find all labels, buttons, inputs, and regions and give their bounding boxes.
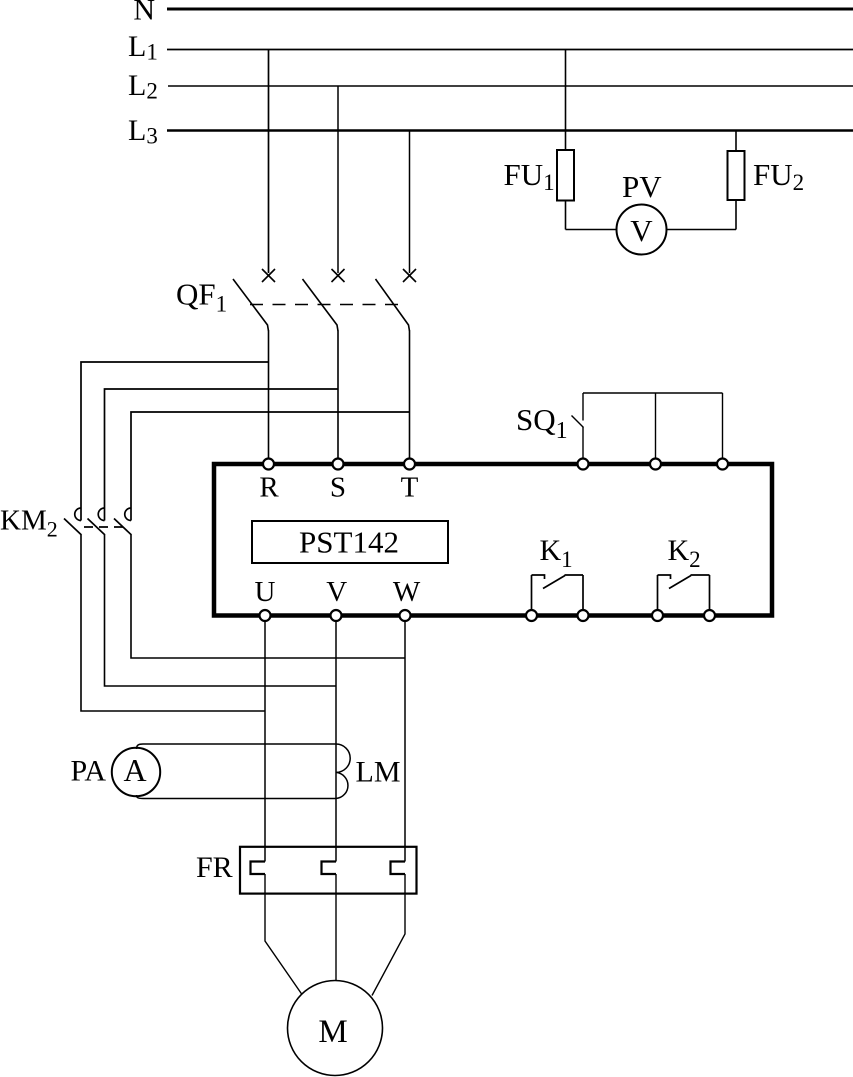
SQ1 right leg	[722, 393, 724, 459]
wire U phase down	[264, 621, 266, 862]
FR heater V	[322, 862, 337, 875]
terminal K1-a	[526, 610, 537, 621]
wire W to motor	[372, 874, 405, 996]
bus N	[167, 8, 853, 11]
svg-text:S: S	[330, 472, 346, 504]
svg-text:R: R	[259, 472, 279, 504]
terminal K2-b	[704, 610, 715, 621]
svg-text:PST142: PST142	[299, 525, 399, 560]
FR heater U	[251, 862, 266, 875]
svg-text:FR: FR	[196, 851, 233, 884]
bus L2	[168, 85, 853, 87]
wire ammeter bottom	[137, 795, 337, 799]
QF1 pole 2 fixed contact x	[332, 269, 345, 282]
wire FU1 to voltmeter	[566, 229, 617, 231]
terminal SQ1-c	[717, 459, 728, 470]
wire V to motor	[335, 874, 337, 981]
svg-text:V: V	[326, 576, 347, 608]
KM2 linkage dashed	[84, 526, 123, 528]
bus L3	[167, 129, 853, 132]
terminal V	[331, 610, 342, 621]
svg-text:M: M	[318, 1014, 347, 1050]
limit switch SQ1 top bar	[583, 392, 723, 394]
PST142 inner rect	[252, 521, 448, 563]
svg-text:U: U	[255, 576, 276, 608]
wire L3 drop to QF1 pole 3	[409, 131, 411, 274]
QF1 pole 1 fixed contact x	[262, 269, 275, 282]
svg-text:A: A	[123, 752, 146, 788]
wire U to motor	[265, 874, 302, 995]
relay contact K1	[532, 575, 584, 610]
relay contact K2	[658, 575, 710, 610]
terminal SQ1-b	[650, 459, 661, 470]
svg-text:LM: LM	[356, 756, 401, 789]
svg-text:PA: PA	[71, 755, 107, 788]
terminal T	[404, 459, 415, 470]
wire R tap to KM2 pole1	[81, 362, 269, 508]
terminal U	[260, 610, 271, 621]
motor M	[288, 981, 383, 1076]
wire ammeter top	[137, 744, 337, 749]
ammeter PA	[112, 748, 160, 796]
thermal relay FR box	[240, 847, 417, 894]
SQ1 contact leg	[582, 393, 584, 421]
wire L2 drop to QF1 pole 2	[337, 86, 339, 273]
QF1 pole 2 blade	[303, 279, 339, 331]
SQ1 blade	[572, 416, 584, 428]
wire KM2 pole2 to V	[105, 535, 337, 686]
QF1 pole 1 blade	[233, 279, 269, 331]
QF1 pole 3 fixed contact x	[403, 269, 416, 282]
wire KM2 pole3 to W	[131, 535, 405, 658]
QF1 pole 3 blade	[376, 279, 410, 331]
terminal S	[333, 459, 344, 470]
current transformer LM	[336, 744, 350, 799]
KM2 pole 2	[104, 508, 106, 521]
wire QF1 pole1 out to terminal R	[268, 331, 270, 460]
soft starter box PST142	[214, 464, 772, 616]
fuse FU2	[735, 131, 737, 152]
wire KM2 pole1 to U	[81, 535, 265, 711]
terminal R	[263, 459, 274, 470]
QF1 linkage dashed	[250, 304, 402, 306]
bus L1	[167, 49, 853, 51]
svg-text:T: T	[401, 472, 419, 504]
terminal K1-b	[578, 610, 589, 621]
KM2 pole 1	[80, 508, 82, 521]
terminal K2-a	[652, 610, 663, 621]
SQ1 middle leg	[655, 393, 657, 459]
fuse FU1	[565, 50, 567, 151]
svg-text:PV: PV	[622, 169, 662, 204]
terminal SQ1-a	[578, 459, 589, 470]
wire voltmeter to FU2	[667, 229, 737, 231]
KM2 pole 3	[130, 508, 132, 521]
wire W phase down	[404, 621, 406, 862]
breaker QF1	[233, 269, 416, 331]
wire T tap to KM2 pole3	[131, 412, 410, 508]
svg-text:W: W	[393, 576, 421, 608]
terminal W	[400, 610, 411, 621]
wire QF1 pole2 out to terminal S	[337, 331, 339, 460]
svg-text:N: N	[133, 0, 155, 27]
wire QF1 pole3 out to terminal T	[409, 331, 411, 460]
contactor KM2	[64, 508, 132, 535]
FR heater W	[391, 862, 406, 875]
wire S tap to KM2 pole2	[105, 389, 339, 508]
wire L1 drop to QF1 pole 1	[268, 50, 270, 274]
voltmeter PV	[617, 205, 667, 255]
wire V phase down	[335, 621, 337, 862]
svg-text:V: V	[630, 213, 653, 248]
